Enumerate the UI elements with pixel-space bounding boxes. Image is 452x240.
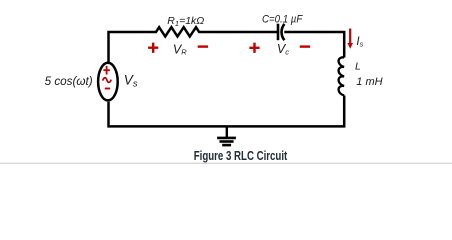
ground symbol [226,126,228,137]
svg-text:Is: Is [356,36,363,49]
svg-text:Vc: Vc [277,42,289,56]
svg-text:C=0.1 µF: C=0.1 µF [262,14,303,26]
wire top-left segment with resistor zigzag inline [109,27,279,62]
svg-text:Figure 3 RLC Circuit: Figure 3 RLC Circuit [194,149,288,163]
source plus [103,66,110,75]
plus sign VC [249,43,259,53]
source minus [105,88,110,90]
svg-text:VR: VR [173,42,187,56]
svg-text:L: L [355,61,361,73]
inductor L coil [339,57,345,95]
source sine tilde [103,78,112,83]
capacitor C left plate [277,24,280,41]
capacitor C right curved plate [282,24,285,40]
minus sign VR [198,45,208,47]
wire right-bottom segment [109,96,345,127]
minus sign VC [300,45,310,47]
svg-text:1 mH: 1 mH [356,76,382,88]
current arrow Is [349,29,351,45]
svg-text:R1=1kΩ: R1=1kΩ [167,15,204,28]
wire top-right segment [284,32,344,58]
page divider line [0,163,452,164]
plus sign VR [148,43,158,53]
voltage source VS ellipse [98,63,118,101]
svg-text:Vs: Vs [124,72,138,89]
svg-text:5 cos(ωt): 5 cos(ωt) [45,75,93,88]
